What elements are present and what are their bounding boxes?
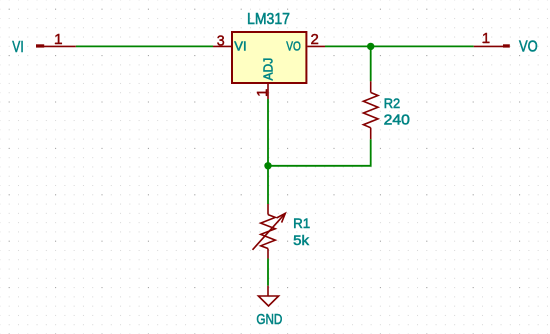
svg-text:R2: R2 — [384, 96, 401, 112]
svg-text:240: 240 — [384, 112, 410, 128]
svg-text:ADJ: ADJ — [261, 58, 276, 81]
svg-text:3: 3 — [217, 34, 225, 50]
svg-text:1: 1 — [255, 89, 271, 97]
svg-text:LM317: LM317 — [247, 11, 290, 28]
svg-text:VO: VO — [286, 38, 301, 53]
svg-text:2: 2 — [311, 31, 319, 48]
svg-text:VI: VI — [234, 38, 246, 53]
svg-text:GND: GND — [256, 312, 282, 328]
svg-text:VI: VI — [12, 39, 23, 56]
svg-text:5k: 5k — [293, 233, 310, 249]
svg-text:1: 1 — [54, 31, 62, 48]
svg-text:VO: VO — [519, 38, 538, 55]
svg-text:R1: R1 — [293, 216, 310, 232]
svg-text:1: 1 — [482, 31, 490, 47]
